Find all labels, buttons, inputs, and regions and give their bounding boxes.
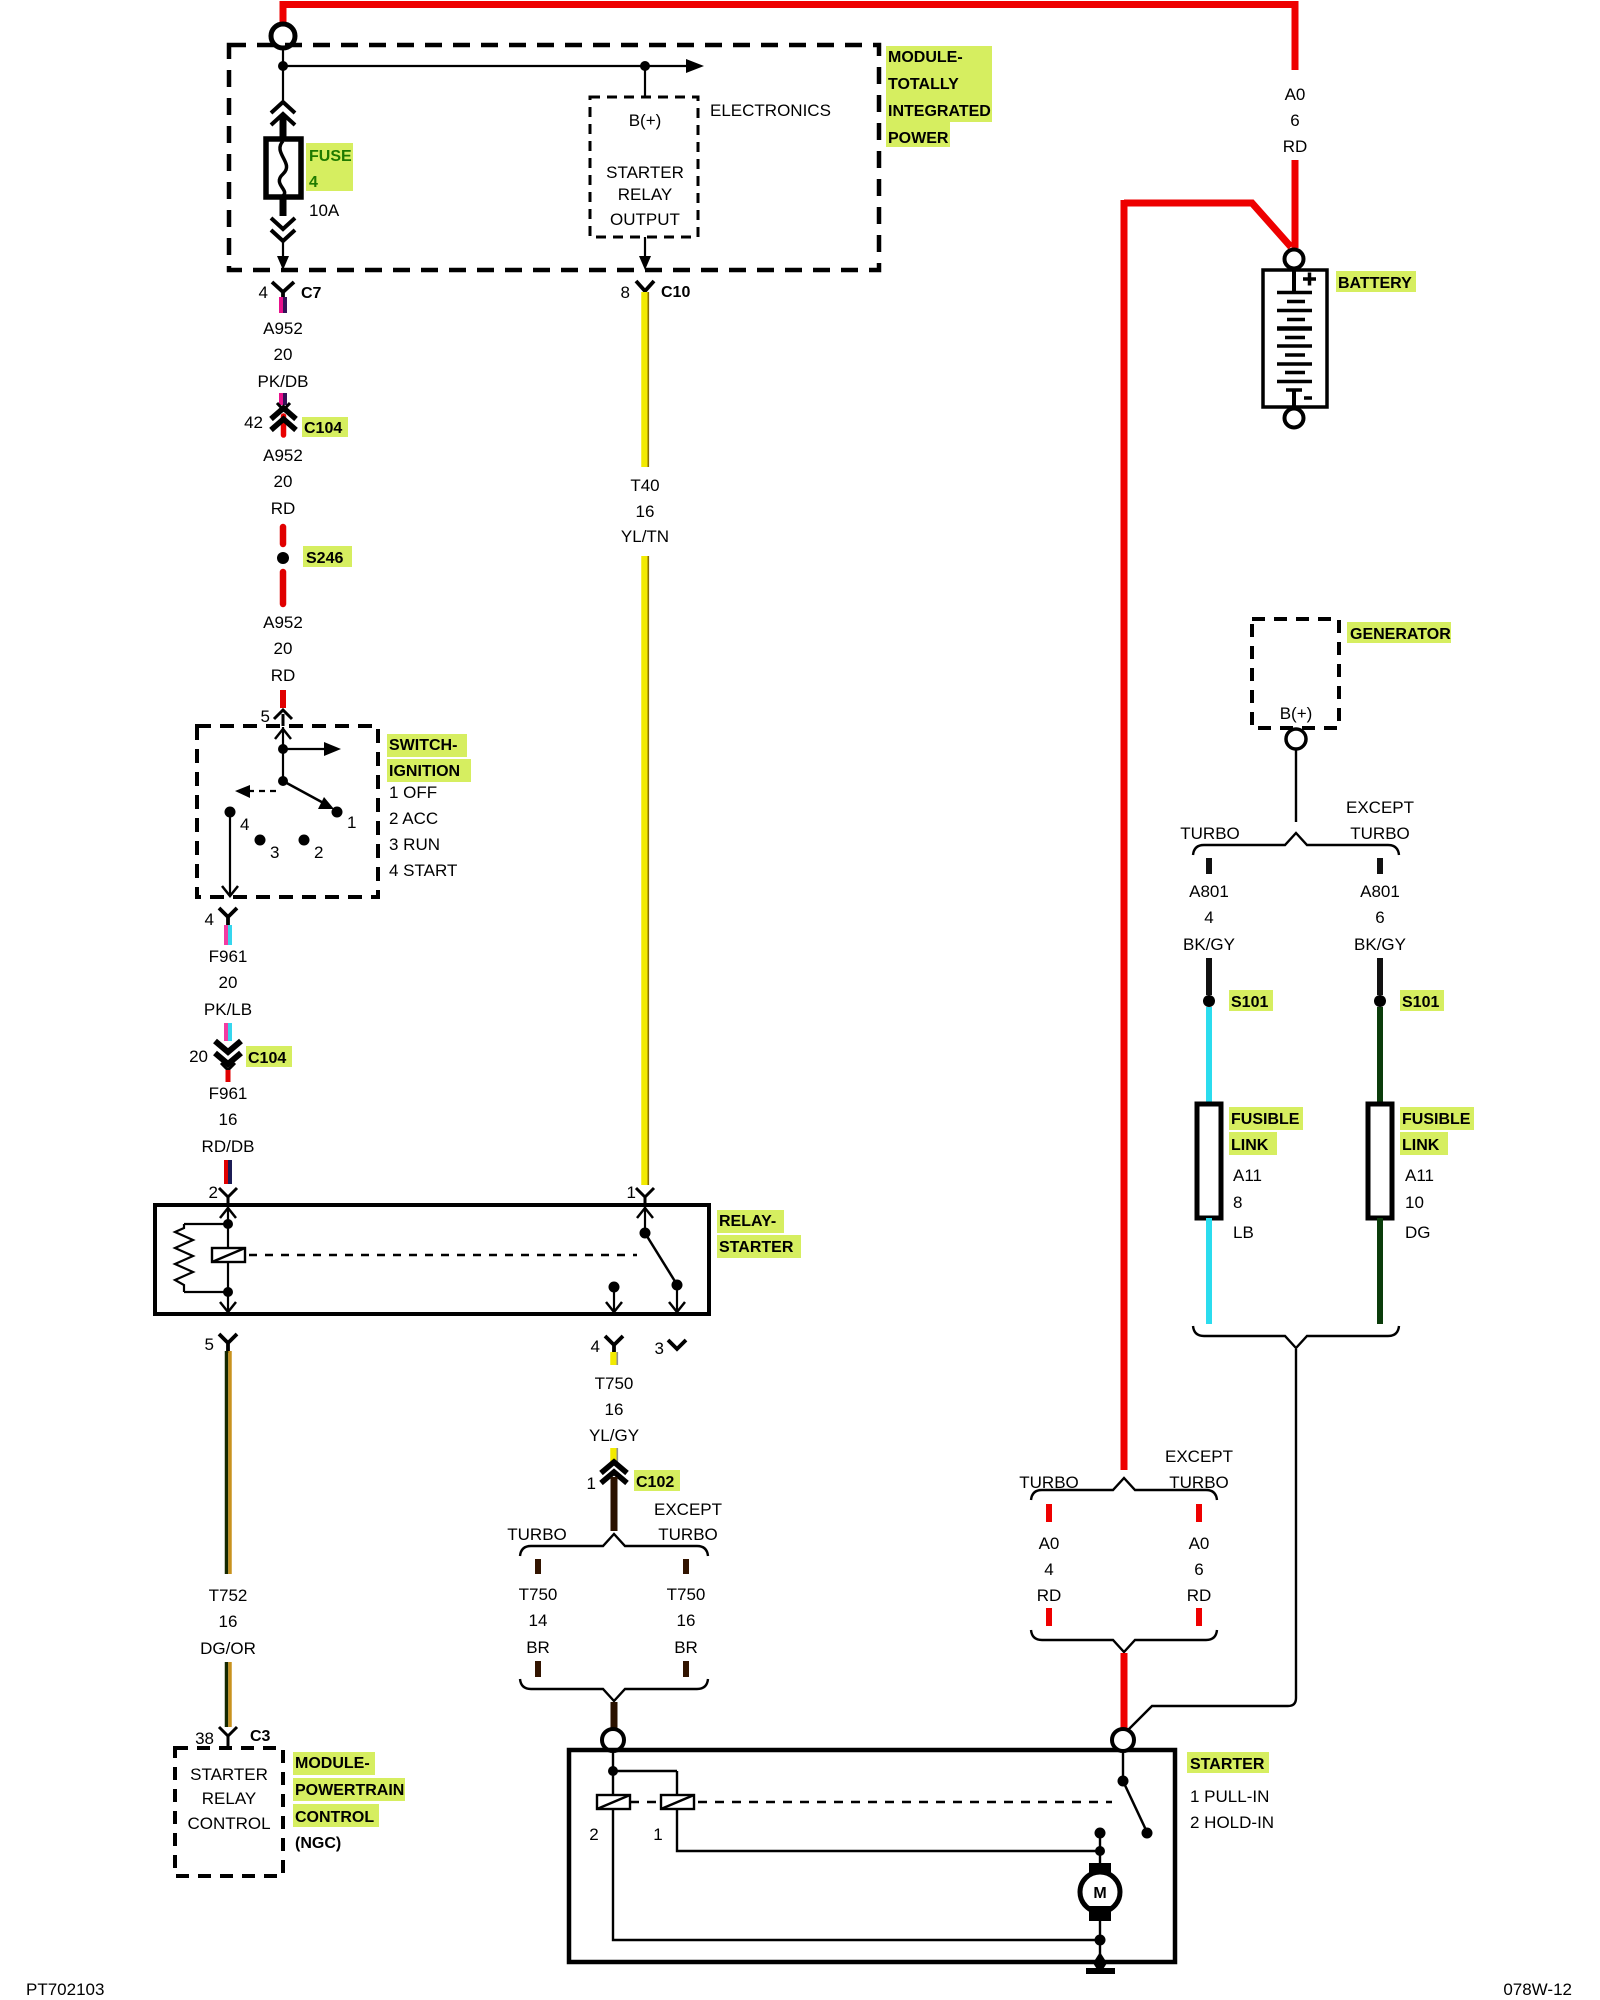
svg-text:PT702103: PT702103: [26, 1980, 104, 1999]
svg-text:A801: A801: [1360, 882, 1400, 901]
wire relay output to C10 arrow: [644, 237, 646, 262]
svg-text:S101: S101: [1231, 994, 1268, 1011]
svg-text:4: 4: [1204, 908, 1213, 927]
connector C104 pin 42: [244, 403, 348, 437]
connector ignition switch pin 5: [261, 707, 292, 726]
connector relay pin 3 below: [655, 1339, 686, 1358]
fuse F4: [266, 139, 301, 197]
wire BR except turbo stub upper: [683, 1559, 689, 1574]
wire RD segment above S246: [280, 527, 287, 544]
svg-text:A11: A11: [1233, 1166, 1262, 1185]
fusible link turbo: [1197, 1104, 1221, 1218]
svg-text:LB: LB: [1233, 1223, 1254, 1242]
switch ignition internals: [222, 727, 356, 896]
svg-text:LINK: LINK: [1402, 1137, 1440, 1154]
svg-text:BATTERY: BATTERY: [1338, 275, 1412, 292]
svg-text:1 PULL-IN: 1 PULL-IN: [1190, 1787, 1269, 1806]
svg-text:FUSIBLE: FUSIBLE: [1402, 1111, 1471, 1128]
fuse F4 output chevrons: [280, 197, 287, 216]
label SWITCH-IGNITION: [387, 734, 471, 782]
terminal ring TIPM B+: [271, 24, 295, 48]
terminal ring starter solenoid: [602, 1729, 624, 1751]
fusible link except turbo: [1368, 1104, 1392, 1218]
wire starter feed red vertical: [1121, 200, 1128, 1470]
svg-text:6: 6: [1290, 111, 1299, 130]
svg-text:8: 8: [1233, 1193, 1242, 1212]
wire A801 turbo lower: [1206, 958, 1212, 995]
svg-text:1 OFF: 1 OFF: [389, 783, 437, 802]
wire A0 4 RD stub upper: [1046, 1504, 1052, 1522]
wire fuse to C7 arrow: [282, 241, 284, 262]
svg-text:2: 2: [589, 1825, 598, 1844]
svg-text:TOTALLY: TOTALLY: [888, 76, 959, 93]
svg-text:STARTER: STARTER: [190, 1765, 268, 1784]
wire F961 PK/LB stub: [224, 925, 228, 945]
ground starter: [1086, 1952, 1115, 1974]
svg-text:YL/TN: YL/TN: [621, 527, 669, 546]
svg-text:STARTER: STARTER: [719, 1239, 794, 1256]
switch ignition dashed box: [197, 726, 378, 897]
svg-text:2 ACC: 2 ACC: [389, 809, 438, 828]
connector relay pin 5 below: [205, 1334, 237, 1354]
connector C10 pin 8: [621, 281, 691, 302]
brace split starter feed: [1031, 1478, 1217, 1500]
wire battery feed red top: [283, 5, 1295, 71]
svg-text:TURBO: TURBO: [1180, 824, 1240, 843]
wire T750 YL/GY stub: [610, 1352, 617, 1365]
connector C104 pin 20: [189, 1041, 292, 1082]
node TIPM junction at relay output: [640, 61, 650, 71]
brace merge starter feed: [1031, 1630, 1217, 1652]
svg-text:42: 42: [244, 413, 263, 432]
relay coil branch: [175, 1206, 245, 1312]
starter box: [569, 1750, 1175, 1962]
module TIPM dashed box: [229, 45, 879, 270]
svg-text:MODULE-: MODULE-: [888, 49, 963, 66]
starter dashed actuator line: [630, 1801, 1112, 1804]
inner dashed box starter relay output: [590, 97, 698, 237]
wire coil 1 to motor junction: [677, 1809, 1100, 1851]
svg-text:RD/DB: RD/DB: [202, 1137, 255, 1156]
wire A0 6 RD stub upper: [1196, 1504, 1202, 1522]
wire BR turbo stub lower: [535, 1661, 541, 1677]
wire A801 except turbo stub: [1377, 858, 1383, 874]
label GENERATOR: [1347, 622, 1451, 643]
svg-text:A952: A952: [263, 319, 303, 338]
svg-text:4: 4: [309, 174, 318, 191]
connector C102 pin 1: [587, 1462, 680, 1531]
label RELAY-STARTER: [717, 1210, 801, 1258]
svg-text:4: 4: [1044, 1560, 1053, 1579]
wire A0 4 RD stub lower: [1046, 1608, 1052, 1626]
svg-text:BR: BR: [674, 1638, 698, 1657]
svg-text:C102: C102: [636, 1474, 674, 1491]
svg-text:EXCEPT: EXCEPT: [654, 1500, 722, 1519]
svg-text:TURBO: TURBO: [658, 1525, 718, 1544]
svg-text:F961: F961: [209, 1084, 248, 1103]
svg-text:(NGC): (NGC): [295, 1835, 341, 1852]
wire A952 PK/DB stub: [279, 297, 283, 313]
wire RD segment below S246: [280, 572, 287, 604]
generator dashed box: [1252, 619, 1339, 728]
relay starter box: [155, 1205, 709, 1314]
wire LB light blue: [1206, 1007, 1212, 1104]
label FUSIBLE LINK A11 8 LB: [1229, 1107, 1303, 1242]
svg-text:4 START: 4 START: [389, 861, 457, 880]
svg-text:SWITCH-: SWITCH-: [389, 737, 457, 754]
brace merge fusible links: [1193, 1326, 1399, 1348]
svg-text:STARTER: STARTER: [606, 163, 684, 182]
label MODULE-POWERTRAIN CONTROL NGC: [293, 1752, 405, 1852]
label FUSIBLE LINK A11 10 DG: [1400, 1107, 1474, 1242]
svg-text:DG: DG: [1405, 1223, 1431, 1242]
fuse F4 feed chevrons: [271, 102, 295, 125]
svg-text:C104: C104: [304, 420, 342, 437]
svg-text:M: M: [1093, 1885, 1106, 1902]
svg-text:LINK: LINK: [1231, 1137, 1269, 1154]
terminal ring battery positive: [1285, 250, 1304, 269]
svg-text:RD: RD: [271, 499, 296, 518]
svg-text:1: 1: [587, 1474, 596, 1493]
wire T40 yellow lower: [641, 556, 648, 1185]
svg-text:TURBO: TURBO: [1350, 824, 1410, 843]
svg-text:2: 2: [209, 1183, 218, 1202]
svg-text:20: 20: [189, 1047, 208, 1066]
svg-text:T750: T750: [519, 1585, 558, 1604]
wire A801 except turbo lower: [1377, 958, 1383, 995]
wire PK/DB stub above C104: [279, 393, 283, 405]
label FUSE 4: [306, 143, 353, 191]
connector starter relay pin 1: [627, 1183, 654, 1205]
label BATTERY: [1336, 271, 1416, 292]
svg-text:A952: A952: [263, 613, 303, 632]
svg-text:C3: C3: [250, 1728, 271, 1745]
svg-text:YL/GY: YL/GY: [589, 1426, 639, 1445]
svg-text:RELAY: RELAY: [618, 185, 673, 204]
connector C3 pin 38: [195, 1727, 270, 1748]
wire DG below link: [1377, 1218, 1383, 1324]
connector relay pin 4 below: [591, 1336, 623, 1356]
svg-text:DG/OR: DG/OR: [200, 1639, 256, 1658]
svg-text:C10: C10: [661, 284, 690, 301]
motor M: [1080, 1863, 1120, 1961]
wire A801 turbo stub: [1206, 858, 1212, 874]
connector starter relay pin 2: [209, 1183, 237, 1205]
wire A0 6 RD stub lower: [1196, 1608, 1202, 1626]
wire RD/DB stub: [224, 1160, 228, 1184]
svg-text:OUTPUT: OUTPUT: [610, 210, 680, 229]
relay contact branch: [606, 1206, 685, 1312]
wire BR to starter solenoid: [611, 1702, 618, 1730]
svg-text:PK/LB: PK/LB: [204, 1000, 252, 1019]
connector ignition switch pin 4 output: [205, 908, 237, 929]
svg-text:A0: A0: [1039, 1534, 1060, 1553]
svg-text:EXCEPT: EXCEPT: [1165, 1447, 1233, 1466]
wire DG/OR lower: [225, 1662, 229, 1727]
node TIPM junction left: [278, 61, 288, 71]
wire fusible links to starter terminal: [1127, 1349, 1296, 1731]
svg-text:4: 4: [240, 815, 249, 834]
svg-text:14: 14: [529, 1611, 548, 1630]
svg-text:4: 4: [591, 1337, 600, 1356]
svg-text:8: 8: [621, 283, 630, 302]
svg-text:16: 16: [605, 1400, 624, 1419]
splice S246: [277, 552, 289, 564]
svg-text:RD: RD: [271, 666, 296, 685]
svg-text:T750: T750: [667, 1585, 706, 1604]
relay dashed actuator line: [249, 1254, 637, 1257]
wire generator output: [1295, 749, 1297, 822]
svg-text:20: 20: [274, 345, 293, 364]
svg-text:EXCEPT: EXCEPT: [1346, 798, 1414, 817]
starter contact switch: [1095, 1751, 1153, 1864]
svg-text:T752: T752: [209, 1586, 248, 1605]
wire battery positive red: [1292, 160, 1299, 248]
wire T40 yellow upper: [641, 292, 648, 467]
svg-text:F961: F961: [209, 947, 248, 966]
svg-text:FUSIBLE: FUSIBLE: [1231, 1111, 1300, 1128]
svg-text:BK/GY: BK/GY: [1183, 935, 1235, 954]
wire BR turbo stub upper: [535, 1559, 541, 1574]
svg-text:ELECTRONICS: ELECTRONICS: [710, 101, 831, 120]
svg-text:RD: RD: [1187, 1586, 1212, 1605]
label STARTER 1 PULL-IN 2 HOLD-IN: [1187, 1752, 1274, 1832]
svg-text:5: 5: [205, 1335, 214, 1354]
wire coil 2 to motor bottom junction: [613, 1809, 1100, 1940]
svg-text:A0: A0: [1189, 1534, 1210, 1553]
svg-text:078W-12: 078W-12: [1503, 1980, 1572, 1999]
svg-text:BR: BR: [526, 1638, 550, 1657]
svg-text:IGNITION: IGNITION: [389, 763, 460, 780]
svg-text:BK/GY: BK/GY: [1354, 935, 1406, 954]
battery: [1263, 270, 1327, 407]
svg-text:C7: C7: [301, 285, 322, 302]
svg-text:16: 16: [677, 1611, 696, 1630]
svg-text:FUSE: FUSE: [309, 148, 352, 165]
wire TIPM internal arrow right: [283, 65, 688, 67]
svg-text:A0: A0: [1285, 85, 1306, 104]
svg-text:GENERATOR: GENERATOR: [1350, 626, 1451, 643]
svg-text:4: 4: [205, 910, 214, 929]
svg-text:20: 20: [274, 472, 293, 491]
svg-text:S101: S101: [1402, 994, 1439, 1011]
svg-text:3: 3: [655, 1339, 664, 1358]
terminal ring battery negative: [1285, 409, 1304, 428]
wire starter feed red corner: [1124, 203, 1291, 247]
svg-text:2: 2: [314, 843, 323, 862]
wire BR except turbo stub lower: [683, 1661, 689, 1677]
wire LB below link: [1206, 1218, 1212, 1324]
wire YL/GY stub above C102: [610, 1448, 617, 1462]
svg-text:RD: RD: [1037, 1586, 1062, 1605]
svg-text:16: 16: [219, 1612, 238, 1631]
svg-text:RELAY: RELAY: [202, 1789, 257, 1808]
wire RD stub into switch: [280, 690, 286, 708]
svg-text:A801: A801: [1189, 882, 1229, 901]
wire T752 DG/OR: [225, 1351, 229, 1574]
svg-text:1: 1: [627, 1183, 636, 1202]
wire TIPM internal bus: [282, 48, 284, 100]
svg-text:TURBO: TURBO: [507, 1525, 567, 1544]
svg-text:POWERTRAIN: POWERTRAIN: [295, 1782, 404, 1799]
svg-text:5: 5: [261, 707, 270, 726]
svg-text:T750: T750: [595, 1374, 634, 1393]
connector C7 pin 4: [259, 282, 322, 302]
svg-text:B(+): B(+): [629, 111, 662, 130]
wire DG dark green: [1377, 1007, 1383, 1104]
terminal ring generator: [1286, 729, 1306, 749]
svg-text:RELAY-: RELAY-: [719, 1213, 776, 1230]
svg-text:10A: 10A: [309, 201, 340, 220]
svg-text:B(+): B(+): [1280, 704, 1313, 723]
wire to starter relay output box: [644, 66, 646, 97]
svg-text:T40: T40: [630, 476, 659, 495]
brace merge to starter: [520, 1679, 708, 1701]
wire PK/LB stub above C104 lower: [224, 1023, 228, 1041]
svg-text:INTEGRATED: INTEGRATED: [888, 103, 991, 120]
svg-text:MODULE-: MODULE-: [295, 1755, 370, 1772]
svg-text:2 HOLD-IN: 2 HOLD-IN: [1190, 1813, 1274, 1832]
svg-text:STARTER: STARTER: [1190, 1756, 1265, 1773]
brace split C102: [520, 1534, 708, 1556]
svg-text:38: 38: [195, 1729, 214, 1748]
svg-text:3 RUN: 3 RUN: [389, 835, 440, 854]
svg-text:S246: S246: [306, 550, 343, 567]
splice S101 except turbo: [1374, 995, 1386, 1007]
svg-text:20: 20: [274, 639, 293, 658]
svg-text:RD: RD: [1283, 137, 1308, 156]
svg-text:PK/DB: PK/DB: [257, 372, 308, 391]
svg-text:3: 3: [270, 843, 279, 862]
svg-text:POWER: POWER: [888, 130, 949, 147]
svg-text:CONTROL: CONTROL: [187, 1814, 270, 1833]
svg-text:16: 16: [636, 502, 655, 521]
brace split generator: [1193, 833, 1399, 855]
wire red to starter terminal: [1121, 1653, 1128, 1730]
svg-text:1: 1: [347, 813, 356, 832]
svg-text:1: 1: [653, 1825, 662, 1844]
svg-text:16: 16: [219, 1110, 238, 1129]
svg-text:A952: A952: [263, 446, 303, 465]
svg-text:C104: C104: [248, 1050, 286, 1067]
svg-text:20: 20: [219, 973, 238, 992]
label MODULE-TOTALLY INTEGRATED POWER: [886, 46, 992, 147]
svg-text:10: 10: [1405, 1193, 1424, 1212]
starter solenoid coils: [589, 1751, 694, 1844]
svg-text:6: 6: [1375, 908, 1384, 927]
svg-text:6: 6: [1194, 1560, 1203, 1579]
svg-text:A11: A11: [1405, 1166, 1434, 1185]
splice S101 turbo: [1203, 995, 1215, 1007]
module powertrain control dashed box: [175, 1748, 283, 1876]
svg-text:4: 4: [259, 283, 268, 302]
svg-text:CONTROL: CONTROL: [295, 1809, 374, 1826]
terminal ring starter B+: [1112, 1729, 1134, 1751]
